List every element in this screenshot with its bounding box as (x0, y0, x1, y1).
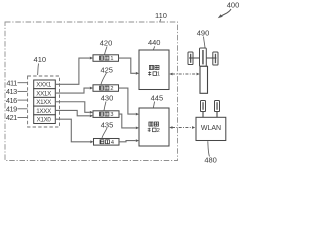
label 420 (100, 38, 113, 54)
label 480 (204, 141, 217, 164)
svg-text:X1XX: X1XX (36, 99, 51, 106)
svg-text:416: 416 (6, 96, 17, 105)
wire row4 to queue3 lower (55, 110, 90, 115)
row box X1XX (34, 97, 56, 106)
wire queue3 to interface2 (119, 114, 136, 128)
network interface 2 box (445) (139, 108, 169, 146)
wire row3 to queue3 upper (55, 102, 90, 113)
wire queue4 to interface2 (119, 141, 136, 142)
block 410 (dashed) (28, 76, 60, 127)
interface1 text line1 (wang luo) (149, 65, 159, 69)
label 410 (34, 55, 47, 75)
WLAN box 480 (196, 117, 226, 140)
label 411 (6, 78, 27, 87)
queue box 4 (94, 139, 120, 146)
wire queue1 to interface1 (119, 58, 136, 73)
svg-text:421: 421 (6, 113, 17, 122)
queue3 text (100, 112, 109, 116)
svg-text:2: 2 (110, 86, 113, 92)
svg-text:1: 1 (157, 72, 160, 78)
svg-text:480: 480 (204, 155, 217, 164)
svg-text:WLAN: WLAN (201, 125, 221, 132)
WLAN antenna left element (201, 101, 206, 118)
label 110 (155, 11, 167, 22)
row box XXX1 (34, 80, 56, 89)
wire row2 to queue2 (55, 88, 90, 93)
svg-text:445: 445 (151, 93, 164, 102)
outer device boundary 110 (dash-dot box) (5, 22, 178, 161)
queue box 2 (93, 85, 119, 92)
svg-text:410: 410 (34, 55, 47, 64)
antenna 490 right element (213, 52, 218, 65)
label 421 (6, 113, 28, 122)
label 419 (6, 105, 28, 114)
wire row5 to queue4 (55, 119, 90, 142)
antenna 490 left element (188, 52, 193, 65)
label 440 (148, 38, 161, 50)
svg-text:4: 4 (111, 140, 114, 146)
antenna 490 mast (200, 66, 208, 93)
label 435 (101, 121, 114, 139)
antenna 490 centre element (200, 48, 207, 66)
row box XX1X (34, 89, 56, 98)
svg-text:400: 400 (227, 0, 240, 9)
label 416 (6, 96, 28, 105)
antenna 490 label (197, 28, 210, 47)
queue1 text (CJK glyph blobs + 1) (100, 56, 109, 60)
row box X1X0 (34, 115, 56, 124)
svg-text:413: 413 (6, 87, 17, 96)
svg-text:411: 411 (6, 78, 17, 87)
label 430 (101, 93, 114, 110)
row box 1XXX (34, 106, 56, 115)
label 413 (6, 87, 28, 96)
label 445 (151, 93, 164, 107)
svg-text:XXX1: XXX1 (36, 82, 51, 89)
svg-text:3: 3 (110, 112, 113, 118)
svg-text:420: 420 (100, 38, 113, 47)
antenna 490 crossbar (189, 57, 217, 59)
queue4 text (100, 140, 109, 144)
svg-text:430: 430 (101, 93, 114, 102)
svg-text:440: 440 (148, 38, 161, 47)
svg-text:110: 110 (155, 11, 167, 20)
label 400 with arrow (218, 0, 239, 18)
dashed RF link interface1 to antenna 490 (double arrow) (169, 73, 199, 76)
svg-text:X1X0: X1X0 (37, 117, 52, 124)
interface2 text line1 (wang luo) (149, 122, 159, 126)
WLAN antenna right element (215, 101, 220, 118)
label 425 (100, 65, 113, 84)
svg-text:2: 2 (157, 128, 160, 134)
svg-text:490: 490 (197, 28, 210, 37)
svg-text:XX1X: XX1X (36, 90, 51, 97)
queue box 3 (93, 111, 119, 118)
svg-text:1XXX: 1XXX (36, 108, 51, 115)
queue2 text (100, 86, 109, 90)
svg-text:419: 419 (6, 105, 17, 114)
network interface 1 box (440) (139, 50, 169, 90)
dashed RF link interface2 to WLAN 480 (double arrow) (169, 126, 195, 129)
svg-text:1: 1 (110, 56, 113, 62)
wire row1 to queue1 (55, 58, 90, 84)
wire queue2 to interface2 (119, 88, 136, 114)
interface2 text line2 (jie kou 2) (148, 128, 156, 132)
queue box 1 (93, 55, 119, 62)
interface1 text line2 (jie kou 1) (148, 71, 156, 75)
